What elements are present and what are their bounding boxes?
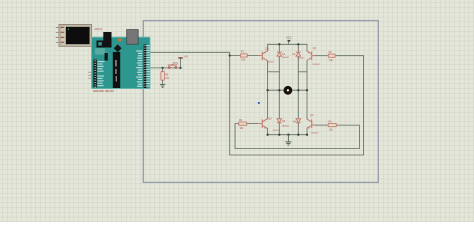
power +5V (178, 57, 182, 59)
svg-text:Q2: Q2 (313, 47, 317, 50)
wire: D2 column upper (297, 44, 299, 52)
junction: bottom rail / Q4 emitter (306, 134, 308, 136)
svg-text:2N2907: 2N2907 (312, 64, 320, 66)
wire: bottom rail (268, 134, 307, 136)
arduino pin stubs (right) (146, 46, 149, 86)
wire: R3 right to Q3 base (247, 123, 259, 125)
junction: mid rail / Q2-Q4 column (306, 89, 308, 91)
junction: bottom rail / D4 column (297, 134, 299, 136)
junction at button right (179, 67, 181, 69)
svg-text:1N4007: 1N4007 (282, 57, 290, 59)
junction: bottom rail / ground stem (287, 134, 289, 136)
crystal area (95, 48, 105, 54)
diode D1 (277, 52, 290, 59)
transistor Q3 (NPN bottom-left) (258, 119, 267, 129)
svg-text:2N2907: 2N2907 (267, 62, 275, 64)
svg-text:1N4007: 1N4007 (282, 126, 290, 128)
sheet border (143, 21, 378, 183)
transistor Q1 (PNP top-left) (258, 51, 267, 61)
wire: Q2 collector column down through mid rail to Q4 collector (306, 61, 308, 119)
right pin strip (144, 45, 147, 89)
wire: arduino pin D? to node A (input A horizontal) (147, 52, 230, 55)
arduino pin label rows (right) (136, 50, 142, 86)
left pin strip (94, 60, 97, 88)
pushbutton (168, 64, 178, 69)
MCU dip chip (113, 52, 120, 88)
wire: Q3 emitter to bottom rail (267, 128, 269, 134)
junction at button left (161, 67, 163, 69)
junction: bottom rail / D3 column (278, 134, 280, 136)
junction: mid rail / D2-D4 column (297, 89, 299, 91)
svg-text:VCC: VCC (286, 36, 291, 39)
button circuit: wire from arduino (147, 67, 181, 69)
svg-text:2N2222: 2N2222 (273, 130, 281, 132)
wire button to +5V power (180, 59, 182, 68)
power led (118, 39, 122, 42)
diode D3 (277, 119, 290, 128)
wire: D3 bottom to bottom rail (278, 123, 280, 135)
svg-text:2N2222: 2N2222 (311, 132, 319, 134)
junction: bottom rail / Q3 emitter (266, 134, 268, 136)
svg-text:ARD1: ARD1 (94, 27, 102, 31)
wire: node A to R1 to Q1 base (230, 55, 259, 57)
transistor Q2 (PNP top-right) (307, 51, 316, 61)
wire: left jog Q1C to D1 (268, 71, 280, 73)
arduino pin label rows (left) (98, 61, 105, 86)
wire: R2 to Q2 base (315, 55, 328, 57)
junction: top rail / D2 column (297, 43, 299, 45)
wire: D1 to D3 column (278, 56, 280, 118)
board (92, 37, 151, 88)
diamond logo (114, 44, 122, 52)
power terminal VCC (H-bridge supply) (286, 36, 291, 44)
wire: Q4 emitter to bottom rail (306, 128, 308, 134)
transistor Q4 (NPN bottom-right) (307, 119, 316, 129)
wire: Q1 collector column down through mid rail to Q3 collector (267, 61, 269, 119)
resistor R5 (pulldown) (161, 72, 170, 81)
diode D4 (293, 119, 301, 124)
arduino ARD1 (92, 27, 151, 89)
ground (H-bridge) (285, 135, 291, 145)
wire: mid motor rail (268, 89, 307, 91)
junction: top rail / D1 column (278, 43, 280, 45)
svg-text:+5V: +5V (184, 56, 189, 59)
svg-text:1N4007: 1N4007 (297, 57, 305, 59)
wire: node A down and around bottom to R2 (right) (230, 56, 364, 156)
junction: mid rail / Q1-Q3 column (266, 89, 268, 91)
resistor R3 (239, 119, 247, 130)
capacitor bar (105, 53, 108, 61)
wire: top power rail (268, 43, 307, 45)
usb chip (103, 32, 111, 48)
reset button (97, 41, 104, 48)
usb connector (127, 30, 139, 45)
node marker (blue dot) (258, 102, 260, 104)
junction: mid rail / D1-D3 column (278, 89, 280, 91)
svg-text:BTN: BTN (173, 63, 178, 65)
pin strip dashes (94, 45, 145, 87)
wire: R4 left to Q4 base (315, 124, 328, 126)
wire: right jog Q2C to D2 (298, 71, 307, 73)
left-side pin stub marks (88, 72, 91, 79)
wire: Q2 emitter column (306, 44, 308, 51)
display pin labels (60, 27, 64, 28)
wire: R3 left around bottom to R4 right (235, 124, 359, 149)
wire: D4 bottom to bottom rail (297, 123, 299, 135)
wire: D1 column upper (278, 44, 280, 52)
wire junction down to R5 (162, 68, 164, 72)
display module U1 (56, 25, 92, 47)
resistor R4 (328, 120, 336, 131)
ground (button circuit) (160, 84, 165, 87)
display pins (56, 28, 59, 43)
wire R5 to ground (162, 80, 164, 84)
resistor R2 (328, 51, 335, 62)
motor M1 (284, 86, 293, 95)
node A junction (229, 54, 231, 56)
diode D2 (292, 52, 305, 59)
resistor R1 (241, 51, 248, 62)
wire: D2 to D4 column (297, 56, 299, 118)
svg-text:ARDUINO UNO R3: ARDUINO UNO R3 (93, 90, 114, 93)
wire: Q1 emitter column (267, 44, 269, 51)
